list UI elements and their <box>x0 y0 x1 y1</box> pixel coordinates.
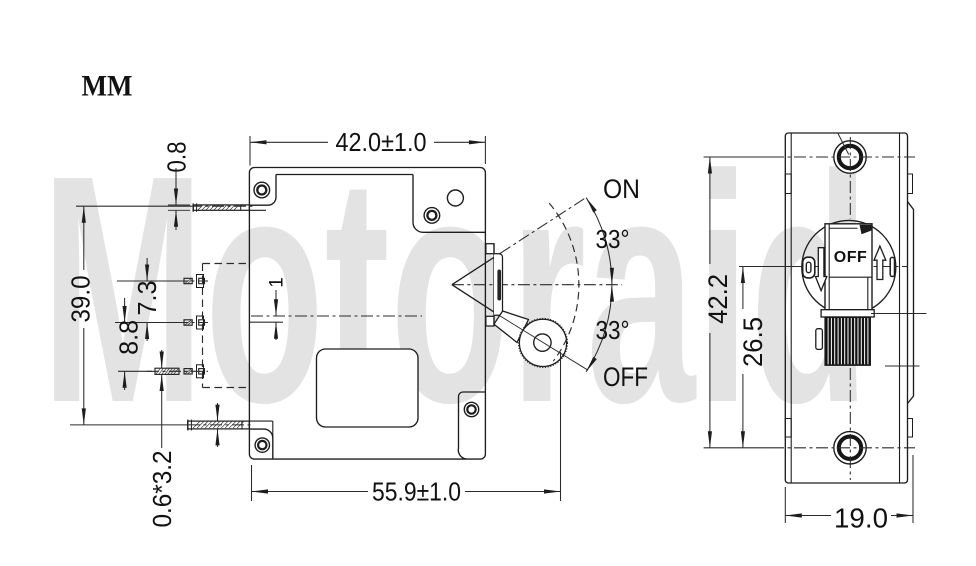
symbol I bar right <box>890 257 894 276</box>
svg-text:39.0: 39.0 <box>66 276 96 323</box>
dimension 8.8 <box>114 298 144 390</box>
lever arm <box>494 311 529 343</box>
dimension 0.6*3.2 (blade section) <box>147 350 177 528</box>
front panel inner line left <box>790 133 792 483</box>
bottom-left ear boundary <box>249 421 272 459</box>
pivot stem face <box>494 254 503 316</box>
pivot stem side <box>493 244 495 326</box>
svg-text:33°: 33° <box>596 224 630 254</box>
rocker top cap line <box>829 227 857 229</box>
svg-text:OFF: OFF <box>603 362 648 392</box>
rocker button <box>825 224 872 310</box>
rocker inner left line <box>828 224 830 310</box>
lever swing arc dashed <box>549 203 579 361</box>
mounting tab bottom-right <box>908 419 913 438</box>
mounting tab top-right <box>908 174 913 194</box>
top hole centerline <box>772 156 915 158</box>
blade 3 centerline <box>147 370 208 372</box>
label ON <box>603 174 640 204</box>
top terminal blade <box>193 203 249 211</box>
dimension 55.9±1.0 <box>252 352 561 507</box>
dimension 7.3 <box>132 258 162 341</box>
svg-text:1: 1 <box>267 277 288 288</box>
bottom terminal blade <box>188 420 250 431</box>
body top inner edge <box>276 174 413 176</box>
svg-text:19.0: 19.0 <box>834 502 888 533</box>
dimension 0.8 (blade thickness) <box>162 142 192 231</box>
lever axis line <box>500 316 588 370</box>
bottom blade centerline <box>188 424 253 426</box>
extension line 39.0 top <box>76 205 190 207</box>
middle terminal blade 1 <box>184 275 205 288</box>
recess rounded rectangle <box>317 349 419 427</box>
svg-text:33°: 33° <box>596 315 630 345</box>
svg-text:ON: ON <box>603 174 640 204</box>
svg-text:55.9±1.0: 55.9±1.0 <box>372 477 461 507</box>
dimension 19.0 <box>785 455 913 533</box>
bottom hole centerline <box>772 447 915 449</box>
mounting hole ring bottom-left <box>255 438 269 452</box>
front panel right bulge <box>908 202 914 404</box>
dimension 42.2 <box>703 157 772 448</box>
projection line knob top <box>871 313 927 315</box>
lever knob hole <box>534 334 551 351</box>
middle terminal blade 2 <box>184 316 205 329</box>
middle terminal blade 3 <box>155 365 205 378</box>
blade 3 extension line <box>118 370 152 372</box>
rocker top shadow wedge <box>860 225 872 234</box>
svg-text:7.3: 7.3 <box>132 281 162 316</box>
svg-text:0.6*3.2: 0.6*3.2 <box>147 451 177 528</box>
pivot stem flange top <box>486 244 494 254</box>
blade 1 centerline <box>176 280 208 282</box>
rocker lower inner line <box>867 277 869 310</box>
label OFF <box>603 362 648 392</box>
projection line knob bottom <box>885 365 920 367</box>
rear housing hidden outline <box>203 264 250 388</box>
rocker split line <box>829 276 872 278</box>
mounting hole ring top-left <box>254 182 270 198</box>
pivot pin slot <box>497 270 501 301</box>
bottom-right ear boundary <box>458 392 485 459</box>
svg-text:MM: MM <box>82 70 133 103</box>
pole centerline inside body <box>250 321 283 323</box>
top blade centerline <box>190 205 253 207</box>
mounting slot top-left <box>785 174 791 194</box>
svg-text:26.5: 26.5 <box>738 317 768 367</box>
bezel circle <box>802 220 896 314</box>
dimension 39.0 <box>66 206 96 425</box>
front mounting hole top <box>834 141 866 173</box>
dimension 42.0±1.0 (top width) <box>250 127 485 166</box>
svg-text:8.8: 8.8 <box>114 320 144 355</box>
knurled knob front <box>825 317 870 365</box>
pivot stem flange bottom <box>486 316 494 326</box>
label OFF on rocker <box>834 249 868 266</box>
front vertical centerline <box>849 137 851 480</box>
top-right ear boundary <box>413 175 485 233</box>
svg-text:0.8: 0.8 <box>162 142 192 173</box>
dimension 1 (offset) <box>267 277 288 340</box>
extension line 39.0 bottom <box>70 424 188 426</box>
bottom blade thickness arrows <box>215 403 219 447</box>
blade 1 extension line <box>117 280 180 282</box>
toggle travel V lines <box>452 253 501 316</box>
angle dimension arc upper 33 <box>586 198 629 285</box>
blade 2 extension line <box>115 322 180 324</box>
top-left ear boundary <box>249 175 276 211</box>
body horizontal centerline <box>251 315 422 317</box>
front panel inner line right <box>899 133 901 483</box>
units label MM <box>82 70 133 103</box>
symbol down arrow <box>815 248 826 291</box>
mounting hole ring top-right <box>424 208 440 224</box>
dimension 26.5 <box>738 267 798 448</box>
plain hole top-right <box>447 190 463 206</box>
symbol up arrow <box>874 246 886 279</box>
svg-text:OFF: OFF <box>834 249 868 266</box>
scribe line at top hole <box>838 133 849 155</box>
ON position ray <box>500 198 585 253</box>
knob side tab <box>816 329 823 350</box>
svg-text:42.0±1.0: 42.0±1.0 <box>336 127 427 157</box>
blade 2 centerline <box>176 322 208 324</box>
knob flange <box>821 310 874 317</box>
bezel horizontal centerline <box>792 266 908 268</box>
svg-text:42.2: 42.2 <box>703 274 733 324</box>
front mounting hole bottom <box>834 432 866 464</box>
lever knob knurled <box>519 319 568 368</box>
mounting hole ring bottom-right <box>464 402 478 416</box>
breaker body outline (side view) <box>249 168 485 460</box>
angle dimension arc lower 33 <box>586 285 629 372</box>
front panel outline <box>785 133 907 483</box>
mounting slot bottom-left <box>785 419 791 438</box>
symbol lock left <box>803 257 815 278</box>
watermark Motoraid <box>41 109 870 470</box>
vertex centerline <box>452 284 622 286</box>
